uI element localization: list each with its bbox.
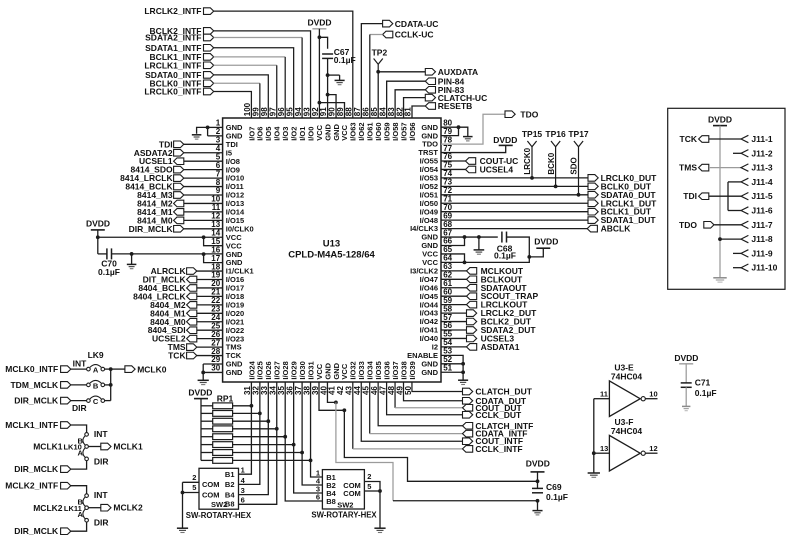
connector ASDATA2 [134, 148, 184, 158]
wire pin 31 column [250, 382, 252, 406]
U13 pin 30 (GND) [211, 364, 243, 377]
U13 pin 93 (I/O0) [302, 107, 315, 141]
connector CLATCH-UC [425, 93, 487, 103]
junction pins 14/15 [202, 235, 206, 239]
connector TDO (J11) [679, 220, 714, 230]
wire output pin 10 [645, 390, 657, 399]
svg-text:DVDD: DVDD [708, 115, 732, 125]
wire pins 67-66 tie [441, 237, 498, 245]
connector CLATCH_INTF [463, 421, 534, 431]
jumper LK9 contact B [87, 380, 105, 390]
connector BCLK0_DUT [588, 181, 652, 191]
connector LRCLK2_DUT [441, 308, 537, 318]
junction pin 51 [461, 370, 465, 374]
wire CLATCH-UC to pin 82 [404, 98, 426, 118]
junction RP1-7 / pin 37 column [300, 451, 304, 455]
connector BCLK2_DUT [441, 317, 532, 327]
wire J11-9 [733, 252, 741, 254]
wire BCLK0_DUT from pin 73 [441, 185, 588, 187]
ground (C68) [478, 237, 480, 250]
wire C67 bottom to GND pin 91 [327, 58, 329, 118]
U13 pin 46 (I/O35) [370, 361, 383, 395]
junction RP1-3 / pin 33 column [266, 419, 270, 423]
U13 pin 50 (I/O39) [404, 361, 417, 395]
resistor RP1-2 [201, 411, 233, 417]
svg-text:A: A [93, 366, 99, 375]
jumper LK10 arc B [83, 436, 85, 445]
ground (SW2-left) [177, 528, 188, 532]
svg-text:DVDD: DVDD [674, 353, 698, 363]
junction GND pins 91/90 branch [326, 93, 330, 97]
wire U3 inputs tie [593, 399, 595, 473]
wire SW2-left COM tie [183, 482, 200, 528]
connector TDO (right) [505, 109, 539, 119]
wire J11-2 [733, 152, 741, 154]
wire GND jog pin 40 to pin 41 [327, 382, 335, 402]
power DVDD (C71) [674, 353, 698, 364]
wire DIR_MCLK to pin 13 [184, 228, 223, 230]
connector SDATA1_DUT [588, 215, 656, 225]
U13 pin 44 (I/O33) [353, 361, 366, 395]
wire RP1-8 to pin 38 [233, 459, 311, 461]
connector 8404_M1 [150, 308, 197, 318]
capacitor C67 [322, 47, 356, 65]
jumper LK10 arc A [83, 448, 85, 458]
connector CCLK_INTF [463, 444, 523, 454]
connector TDI [159, 139, 184, 149]
wire ALRCLK to pin 18 [197, 270, 223, 272]
connector 8404_BCLK [138, 283, 196, 293]
junction C67/ground branch [326, 73, 330, 77]
wire DIR_MCLK to LK9 C [71, 400, 87, 402]
connector BCLK2_INTF [150, 26, 214, 36]
wire pin 37 column to SW2-right B2 [302, 453, 322, 486]
connector CCLK-UC [383, 30, 434, 40]
connector ABCLK [587, 224, 631, 234]
wire DVDD feed to VCC pin 92 [318, 29, 320, 118]
wire 8414_M0 to pin 12 [184, 219, 223, 221]
svg-text:MCLK0: MCLK0 [137, 364, 167, 374]
U13 pin 49 (I/O38) [395, 361, 408, 395]
wire to ground [328, 74, 340, 76]
wire pin 31 column to SW2-left B1 [239, 406, 252, 474]
ground (C69) [537, 501, 539, 511]
U13 pin 42 (VCC) [336, 363, 349, 395]
svg-text:I/O39: I/O39 [408, 361, 417, 379]
U13 pin 79 (GND) [421, 127, 452, 140]
svg-text:GND: GND [226, 368, 243, 377]
wire ASDATA2 to pin 4 [184, 152, 223, 154]
wire UCSEL1 to pin 5 [184, 160, 223, 162]
wire DVDD bus RP1 [200, 399, 202, 461]
wire J11-4 to J11-6 [727, 182, 729, 211]
svg-text:MCLK2: MCLK2 [113, 503, 143, 513]
U13 pin 59 (I/O44) [420, 296, 453, 309]
wire J11-10 [733, 267, 741, 269]
junction pin 30 [201, 371, 205, 375]
junction C69 top [536, 479, 540, 483]
jumper LK10 contact INT [85, 429, 109, 439]
connector UCSEL3 [441, 333, 514, 343]
connector DIT_MCLK [143, 275, 197, 285]
U13 pin 62 (I/O47) [420, 271, 453, 284]
svg-text:TP17: TP17 [568, 129, 589, 139]
U13 pin 76 (I/O55) [420, 152, 453, 165]
U13 pin 27 (TMS) [211, 338, 241, 351]
U13 pin 73 (I/O52) [420, 178, 453, 191]
svg-text:MCLK1: MCLK1 [33, 442, 63, 452]
svg-text:SW2: SW2 [337, 500, 353, 509]
svg-text:DIR_MCLK: DIR_MCLK [14, 464, 59, 474]
power DVDD (C69) [526, 458, 550, 481]
wire MCLK0_INTF to LK9 A [71, 368, 87, 370]
svg-text:LRCK0: LRCK0 [523, 147, 532, 174]
ground (U3 inputs) [588, 473, 600, 477]
svg-text:TP16: TP16 [545, 129, 566, 139]
wire RP1-6 to pin 36 [233, 444, 294, 446]
wire LK9 A to common [105, 368, 111, 370]
junction C69 bottom [536, 499, 540, 503]
wire LRCLK0_INTF to pin 100 [214, 92, 252, 119]
wire DVDD rail (J11) [719, 126, 721, 278]
junction pin 66 tie [463, 235, 467, 239]
connector CDATA_INTF [463, 429, 528, 439]
svg-text:C71: C71 [695, 378, 711, 388]
connector TMS (J11) [679, 163, 709, 173]
U13 pin 80 (GND) [421, 118, 452, 131]
wire CDATA_INTF from pin 45 [370, 382, 463, 434]
ground (SW2-right) [374, 528, 385, 532]
wire PIN-83 to pin 83 [395, 90, 425, 118]
connector 8414_M1 [137, 207, 184, 217]
U13 pin 36 (I/O29) [285, 361, 298, 395]
svg-text:J11-6: J11-6 [751, 206, 773, 216]
connector LRCLK1_INTF [144, 60, 213, 70]
wire input pin 13 [594, 444, 610, 453]
svg-text:MCLK2: MCLK2 [33, 503, 63, 513]
U13 pin 57 (I/O42) [420, 313, 453, 326]
U13 pin 65 (VCC) [422, 245, 452, 258]
svg-text:0.1µF: 0.1µF [334, 55, 356, 65]
wire COUT_DUT from pin 48 [395, 382, 462, 408]
wire TDO from pin 78 [441, 114, 505, 144]
svg-text:INT: INT [94, 490, 109, 500]
U13 pin 38 (I/O31) [302, 361, 315, 395]
junction RP1-8 / pin 38 column [309, 459, 313, 463]
ground (pins 53-51) [458, 380, 468, 384]
inverter U3-F 74HC04 [609, 417, 645, 471]
junction TP17 [577, 193, 581, 197]
wire pin 32 column [259, 382, 261, 413]
connector LRCLK0_DUT [588, 173, 657, 183]
svg-text:B8: B8 [326, 497, 336, 506]
connector ASDATA1 [441, 342, 520, 352]
resistor RP1-6 [201, 442, 233, 448]
wire RP1-3 to pin 33 [233, 420, 269, 422]
svg-text:INT: INT [73, 358, 88, 368]
connector 8414_LRCLK [120, 173, 184, 183]
wire SDATA1_INTF to pin 95 [214, 48, 294, 118]
svg-text:SDATA2_INTF: SDATA2_INTF [145, 33, 201, 43]
connector TDI (J11) [683, 191, 709, 201]
IC U13 CPLD-M4A5-128/64 body [223, 118, 441, 382]
resistor RP1-1 [201, 403, 233, 409]
svg-text:J11-10: J11-10 [751, 263, 777, 273]
svg-text:CPLD-M4A5-128/64: CPLD-M4A5-128/64 [288, 250, 375, 261]
wire LK9 C to common [105, 400, 111, 402]
power DVDD (RP1) [188, 387, 212, 398]
ground (C67) [335, 80, 345, 84]
U13 pin 61 (I/O46) [420, 279, 453, 292]
wire pins 80-79 tie [441, 127, 468, 136]
U13 pin 92 (VCC) [311, 107, 324, 141]
connector LRCLKOUT [441, 300, 528, 310]
U13 pin 40 (GND) [319, 362, 332, 395]
connector MCLK0_INTF [5, 364, 70, 374]
svg-text:1: 1 [241, 466, 245, 475]
U13 pin 26 (I/O23) [211, 330, 244, 343]
connector MCLK1 (out) [101, 442, 143, 452]
wire pins 65-64 tie [441, 254, 465, 262]
test point TP16 [545, 129, 566, 186]
wire pin 36 column [293, 382, 295, 445]
capacitor C71 [681, 364, 717, 407]
U13 pin 58 (I/O43) [420, 304, 453, 317]
junction C68 left / ground [477, 235, 481, 239]
U13 pin 37 (I/O30) [294, 361, 307, 395]
pin J11-6 [741, 206, 773, 216]
wire SW2-right COM tie [364, 482, 380, 529]
U13 pin 22 (I/O19) [211, 296, 244, 309]
U13 pin 63 (I3/CLK2) [410, 262, 453, 275]
svg-text:TDO: TDO [679, 220, 697, 230]
wire MCLK1_INTF to LK10 INT [71, 425, 87, 433]
jumper LK11 contact INT [85, 490, 109, 500]
wire pin 34 column to SW2-left B8 [239, 429, 277, 505]
wire pin 38 column to SW2-right B1 [311, 460, 323, 477]
wire TRST to DVDD [441, 145, 506, 152]
wire pin 36 column to SW2-right B4 [294, 445, 323, 493]
wire CCLK_DUT from pin 47 [387, 382, 463, 415]
junction LK9 A [109, 367, 113, 371]
svg-text:ABCLK: ABCLK [601, 224, 632, 234]
wire J11-7 [714, 224, 741, 226]
U13 pin 54 (I2) [432, 338, 453, 351]
U13 pin 29 (GND) [211, 355, 243, 368]
U13 pin 23 (I/O20) [211, 305, 244, 318]
junction RP1-4 / pin 34 column [275, 427, 279, 431]
connector 8404_M0 [150, 317, 197, 327]
pin J11-8 [741, 234, 773, 244]
pin J11-5 [741, 191, 773, 201]
wire AUXDATA to TP2 node [378, 71, 425, 73]
U13 pin 99 (I/O6) [252, 107, 265, 141]
connector MCLK1_INTF [5, 420, 70, 430]
connector SDATAOUT [441, 283, 527, 293]
wire 8404_SDI to pin 25 [197, 329, 223, 331]
U13 pin 10 (I/O13) [211, 195, 244, 208]
U13 pin 21 (I/O18) [211, 288, 244, 301]
wire SDATA0_INTF to pin 98 [214, 75, 269, 118]
U13 pin 9 (I/O12) [216, 186, 244, 199]
U13 pin 12 (I/O15) [211, 212, 244, 225]
power DVDD (J11) [708, 115, 732, 126]
junction C70 right / ground [130, 252, 134, 256]
wire pin 32 column to SW2-left B2 [239, 413, 260, 484]
U13 pin 55 (I/O40) [420, 330, 453, 343]
wire DVDD to C67 top [319, 37, 327, 49]
wire TDM_MCLK to LK9 B [71, 384, 87, 386]
U13 pin 3 (TDI) [216, 136, 238, 149]
svg-text:TMS: TMS [679, 163, 697, 173]
svg-text:COM: COM [343, 489, 361, 498]
jumper LK10 contact mid [85, 445, 89, 449]
U13 pin 91 (GND) [319, 107, 332, 141]
power DVDD (top rail) [307, 18, 331, 29]
junction TP16 [554, 184, 558, 188]
wire TDI to pin 3 [184, 143, 223, 145]
U13 pin 25 (I/O22) [211, 321, 244, 334]
svg-text:2: 2 [367, 472, 371, 481]
svg-text:DIR: DIR [72, 403, 87, 413]
svg-text:DVDD: DVDD [493, 135, 517, 145]
jumper LK11 arc A [83, 509, 85, 519]
capacitor C69 [532, 481, 568, 502]
svg-text:CCLK_DUT: CCLK_DUT [475, 410, 522, 420]
power DVDD (TRST) [493, 135, 517, 145]
wire 8414_M2 to pin 10 [184, 202, 223, 204]
wire LRCLK0_DUT from pin 74 [441, 177, 588, 179]
U13 pin 98 (I/O5) [260, 107, 273, 141]
wire RP1-5 to pin 35 [233, 436, 286, 438]
wire DIR_MCLK to LK10 [71, 461, 87, 469]
svg-text:C69: C69 [546, 482, 562, 492]
jumper LK11 contact mid [85, 506, 89, 510]
svg-text:TP15: TP15 [522, 129, 543, 139]
svg-text:6: 6 [316, 492, 320, 501]
U13 pin 1 (GND) [216, 119, 243, 132]
connector 8414_M2 [137, 198, 184, 208]
U13 pin 14 (VCC) [211, 228, 242, 241]
pin J11-10 [741, 263, 778, 273]
connector DIR_MCLK [14, 526, 71, 536]
svg-text:SDO: SDO [570, 157, 579, 174]
connector 8404_LRCLK [133, 291, 197, 301]
svg-text:DIR: DIR [94, 518, 109, 528]
wire J11-3 [709, 167, 741, 169]
wire VCC rail pins 92-89 [319, 103, 344, 118]
wire BCLK2_INTF to pin 93 [214, 31, 311, 118]
U13 pin 78 (TDO) [422, 135, 452, 148]
connector BCLKOUT [441, 274, 523, 284]
U13 pin 8 (I/O11) [216, 178, 244, 191]
jumper LK10 contact DIR [85, 456, 109, 466]
svg-text:DVDD: DVDD [534, 236, 558, 246]
wire LK10 to MCLK1 [88, 446, 100, 448]
U13 pin 64 (VCC) [422, 254, 452, 267]
wire 8404_M0 to pin 24 [197, 321, 223, 323]
junction SW2-right COM [378, 489, 382, 493]
power DVDD (C68) [529, 236, 558, 257]
U13 pin 82 (I/O57) [395, 107, 408, 141]
wire pins 1-2 tie [197, 127, 223, 135]
svg-text:LK9: LK9 [88, 350, 104, 360]
connector LRCLK1_DUT [588, 198, 657, 208]
power DVDD (left) [86, 219, 110, 230]
U13 pin 51 (GND) [421, 363, 452, 376]
connector DIR_MCLK [14, 464, 71, 474]
U13 pin 90 (GND) [328, 107, 341, 141]
connector 8404_M2 [150, 300, 197, 310]
svg-text:J11-7: J11-7 [751, 220, 773, 230]
U13 pin 69 (I/O48) [420, 211, 453, 224]
connector MCLK0 [125, 364, 167, 374]
svg-text:COM: COM [202, 490, 220, 499]
pin J11-2 [741, 148, 773, 158]
wire 8414_M3 to pin 9 [184, 194, 223, 196]
svg-text:0.1µF: 0.1µF [494, 251, 516, 261]
wire 8404_M1 to pin 23 [197, 312, 223, 314]
connector TDM_MCLK [10, 380, 70, 390]
wire ENABLE/GND pins 53-51 tie [441, 355, 463, 380]
ground (pins 29-30) [198, 380, 209, 384]
switch SW2 (right) SW-ROTARY-HEX [311, 468, 377, 519]
connector 8414_SDO [131, 165, 184, 175]
svg-text:74HC04: 74HC04 [611, 372, 642, 382]
wire 8404_BCLK to pin 20 [197, 287, 223, 289]
connector 8404_SDI [148, 325, 197, 335]
svg-text:J11-9: J11-9 [751, 248, 773, 258]
wire RP1-4 to pin 34 [233, 428, 277, 430]
test point TP17 [568, 129, 589, 195]
wire LK9 B to common [105, 384, 111, 386]
wire COUT_INTF from pin 44 [361, 382, 462, 441]
wire CLATCH_DUT from pin 50 [412, 382, 463, 392]
connector PIN-83 [425, 85, 464, 95]
jumper LK11 contact DIR [85, 518, 109, 528]
jumper LK9 contact C [87, 396, 105, 406]
U13 pin 4 (I5) [216, 144, 232, 157]
svg-text:TDI: TDI [683, 191, 697, 201]
U13 pin 19 (I/O16) [211, 271, 244, 284]
svg-text:0.1µF: 0.1µF [695, 388, 717, 398]
svg-text:J11-1: J11-1 [751, 134, 773, 144]
svg-text:51: 51 [443, 363, 452, 372]
U13 pin 41 (GND) [328, 362, 341, 395]
svg-text:J11-4: J11-4 [751, 177, 773, 187]
U13 pin 47 (I/O36) [378, 361, 391, 395]
svg-text:SW-ROTARY-HEX: SW-ROTARY-HEX [311, 511, 377, 520]
U13 pin 24 (I/O21) [211, 313, 244, 326]
U13 pin 33 (I/O26) [260, 361, 273, 395]
wire SDATA2_INTF to pin 94 [214, 38, 302, 119]
ground (C70) [131, 254, 133, 265]
U13 pin 96 (I/O3) [277, 107, 290, 141]
U13 pin 94 (I/O1) [294, 107, 307, 141]
U13 pin 88 (I/O63) [345, 107, 358, 141]
connector MCLK2_INTF [5, 481, 70, 491]
svg-text:SW-ROTARY-HEX: SW-ROTARY-HEX [186, 511, 252, 520]
connector SDATA2_INTF [145, 33, 214, 43]
wire 8414_SDO to pin 6 [184, 169, 223, 171]
connector COUT_INTF [463, 436, 524, 446]
U13 pin 71 (I/O50) [420, 194, 453, 207]
wire TMS to pin 27 [197, 346, 223, 348]
wire J11-4 [728, 181, 741, 183]
wire BCLK1_DUT from pin 70 [441, 211, 588, 213]
wire LK11 to MCLK2 [88, 507, 100, 509]
junction DVDD stem [96, 235, 100, 239]
